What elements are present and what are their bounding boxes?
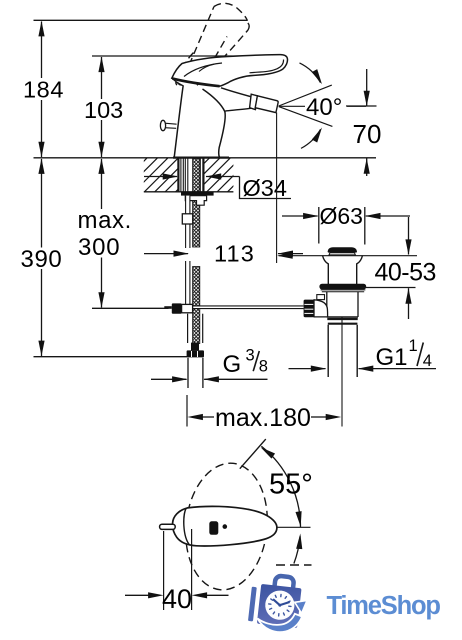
top view: lower dashed reference [276,564,312,566]
55 degree direction line [240,439,266,469]
svg-text:G: G [223,351,242,378]
mounting washer under deck [181,192,214,196]
gap shadow under lever [173,79,220,87]
arrowhead: 70 top [364,91,370,107]
svg-text:Ø34: Ø34 [243,175,287,201]
arrowheads: 40 [148,592,164,598]
arrowhead: 70 bottom [364,158,370,174]
svg-text:55°: 55° [269,469,313,501]
svg-text:max.180: max.180 [215,404,311,432]
arrowheads: 113 [174,251,190,257]
svg-text:TimeShop: TimeShop [327,592,441,620]
plug cap base [329,253,355,255]
pull-rod knob on body left [165,123,177,124]
top view: pull rod [160,524,176,529]
bottom datum line (390) [34,356,188,358]
linkage connector block [182,304,193,312]
55 degree arc upper [261,446,300,527]
lever inner lip [250,60,284,73]
logo bag body [257,584,302,628]
arrowhead: 103 bottom [98,142,104,158]
logo swoosh [258,614,303,632]
dimension max.180 [186,395,188,427]
logo bag handle [274,575,294,588]
housing step [317,295,325,300]
svg-text:G1: G1 [376,344,408,371]
dimension Ø63 [282,207,410,245]
dimension Ø34 leader [144,176,177,178]
svg-text:40: 40 [162,584,192,614]
svg-text:Ø63: Ø63 [320,203,363,229]
arrowheads: max.180 [187,414,203,420]
mounting nut [185,196,206,206]
lever inner shoulder line [184,63,222,77]
spout extension line [276,113,278,264]
arrowheads: spray angle arcs [312,69,325,86]
svg-text:3: 3 [246,347,255,365]
waste outlet pipe [327,325,329,377]
dimension 40 (top view) [163,531,165,610]
arrowheads: 55 degree arc [259,445,275,459]
top view: handle outline [173,506,277,546]
rod connector sleeve [182,214,192,224]
arrowhead: flange top leader [277,253,293,259]
svg-text:1: 1 [409,337,418,355]
logo swoosh arrowhead [295,601,307,614]
reference line top (184 upper datum) [34,19,248,21]
deck hatching [112,157,262,193]
svg-text:113: 113 [214,241,255,267]
svg-text:300: 300 [78,234,120,261]
linkage left pin [164,306,172,309]
linkage horizontal rod [193,306,304,309]
top view: small dot [223,524,228,529]
deck hole edges [177,158,179,192]
hose end fitting [191,343,199,351]
top view: centerline right [278,526,311,528]
arrowheads: 40-53 [405,239,411,255]
waste flange [323,255,329,284]
55 degree arc lower [294,536,300,563]
aerator body [255,96,278,113]
aerator ring [250,94,258,109]
spout top edge [221,88,253,97]
adjuster housing [314,300,328,317]
svg-text:40°: 40° [306,94,342,121]
deck bottom line [144,191,234,193]
reference line 103 upper datum [92,55,285,57]
arrowhead: 390 top [38,158,44,174]
spout bottom edge [225,108,252,111]
svg-text:70: 70 [353,119,382,149]
logo clock hands [280,601,290,606]
dimension 40-53 [362,287,416,289]
svg-text:103: 103 [84,97,123,123]
G3/8 connection nut [187,350,204,357]
arrowheads: 184 top [38,21,44,37]
arrowhead: 103 top [98,57,104,73]
top view: logo mark [209,521,218,535]
waste body [326,292,328,317]
deck surface line [34,157,377,159]
threaded shank crosshatch lower [193,267,200,344]
svg-text:8: 8 [259,358,268,376]
threaded shank crosshatch upper [193,159,200,248]
max300 lower datum line [92,307,169,309]
waste collar rings [327,318,357,320]
dimension 103 stems [101,57,103,99]
dimension 113 [144,253,188,255]
svg-text:40-53: 40-53 [375,259,436,287]
tailpipe [187,358,189,388]
waste flange top line with left arrow [279,255,418,257]
pull rod upper segment [185,196,190,248]
logo clock face [264,589,296,621]
spray angle upper arc [300,63,321,83]
rubber gasket [319,284,366,290]
faucet base bottom [173,157,229,159]
lever handle (solid) [172,55,288,87]
pop-up plug cap [328,247,357,252]
lever inner wave [199,64,214,71]
faucet body right edge [203,89,226,157]
shank sleeve lines in hole [180,158,182,191]
top view: cap seam [184,508,190,545]
dimension G3/8 arrows [151,378,187,380]
logo bag stripe [248,573,303,628]
arrowheads: G1 1/4 [311,366,327,372]
dashed raised lever [175,3,249,85]
svg-text:184: 184 [23,77,64,103]
TimeShop logo [248,573,441,632]
supply hose below linkage [187,314,189,343]
svg-text:max.: max. [78,207,132,234]
dimension 70 line and stems [346,105,377,107]
spray angle rays [279,63,366,148]
arrowheads: G3/8 [172,376,188,382]
dimension max300 stems [101,159,103,209]
arrowhead: 184 bottom [38,142,44,158]
lever front beak [172,78,184,86]
arrowhead: 390 bottom [38,341,44,357]
dimension 390 stems [41,159,43,248]
svg-text:390: 390 [21,246,63,273]
pull rod lower segment [185,261,190,305]
arrowheads: O34 [163,173,179,179]
waste knurled adjuster [304,300,314,318]
arrowhead: max300 top [98,158,104,174]
dimension G1 1/4 [289,368,326,370]
spray angle lower arc [301,129,321,148]
arrowhead: max300 bottom [98,292,104,308]
logo clock ticks [268,593,293,617]
faucet body left edge [174,86,183,158]
arrowheads: O63 [303,213,319,219]
svg-text:4: 4 [423,352,432,370]
linkage knob [172,303,182,313]
waste centerline [341,318,343,427]
dimension 184 stems [41,22,43,79]
top view: swivel range dashed ellipse [180,459,274,594]
